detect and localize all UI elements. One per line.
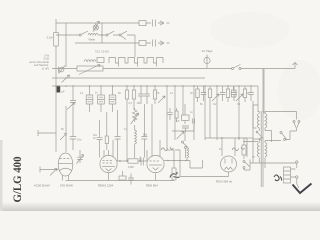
resistor R6 (153, 86, 156, 104)
resistor R16 (97, 58, 104, 63)
capacitor C8 (231, 86, 237, 101)
wire mains antenna line (162, 68, 295, 70)
node n3 (221, 137, 223, 139)
wire heater leads (250, 158, 290, 169)
transformer TR primary upper (257, 114, 259, 128)
trimmer arrow T6 (131, 113, 139, 124)
terminal arrow antenna (160, 21, 170, 25)
trimmer cap CT1 (59, 66, 66, 74)
switch S4 mains (280, 132, 287, 141)
wire vertical v183 (182, 86, 184, 115)
node junction lamp (101, 34, 103, 36)
capacitor C15 (128, 174, 134, 185)
wire bus to transformer (257, 86, 259, 112)
svg-text:REN 904: REN 904 (146, 184, 158, 188)
capacitor C14 (141, 158, 143, 166)
wire V4 bottom run (175, 150, 229, 177)
transformer TR secondary upper (265, 114, 267, 128)
wire main bus (52, 85, 258, 87)
svg-text:Welle: Welle (89, 38, 96, 42)
wire vertical v175 (174, 86, 176, 140)
tube V2 RENS1204 (100, 140, 117, 181)
svg-text:G/LG 400: G/LG 400 (10, 157, 24, 203)
svg-text:7/12 7,5-8,5: 7/12 7,5-8,5 (95, 50, 109, 54)
resistor R7 (196, 86, 199, 102)
trimmer cap CT2 (60, 134, 67, 141)
trimmer arrow T1 (62, 75, 70, 83)
trimmer arrow T5 (236, 94, 243, 101)
wire v167 bottom (167, 149, 174, 151)
wire v147 drop (146, 150, 148, 161)
tube V4 RGN1064 (221, 156, 237, 177)
wire bottom run V2 (66, 180, 175, 182)
wire V3 anode run (164, 160, 203, 168)
wire v125 drop (126, 110, 128, 161)
svg-text:678 3N/W: 678 3N/W (60, 184, 73, 188)
capacitor C4 (138, 86, 144, 104)
IF transformer Fi3 (109, 86, 116, 112)
svg-text:RGN 354 ds: RGN 354 ds (216, 180, 232, 184)
wire left feed vertical (56, 19, 66, 152)
svg-text:10n: 10n (77, 138, 82, 142)
wire secondary leads (265, 112, 297, 143)
svg-text:4V: 4V (252, 156, 255, 159)
wire vertical v167 (166, 86, 168, 150)
wire cathode run (40, 167, 58, 173)
capacitor C7 (220, 86, 225, 101)
capacitor C1 (153, 20, 156, 27)
jack dark (57, 86, 61, 93)
node n4 (238, 137, 240, 139)
resistor R19 (175, 108, 178, 122)
trimmer arrow T8 (177, 132, 185, 140)
capacitor C2 (153, 40, 156, 47)
svg-text:RENS 1204: RENS 1204 (98, 184, 114, 188)
switch S2 (232, 65, 242, 70)
IF transformer Fi2 (98, 86, 105, 112)
tube V1 RENS1254 (58, 153, 73, 181)
svg-text:4A Träge: 4A Träge (202, 49, 213, 53)
wire hv run (205, 101, 258, 157)
annotation ink squiggle (170, 172, 180, 178)
detector box DB (182, 104, 190, 124)
node n1 (119, 160, 121, 162)
resistor R5 (132, 86, 135, 110)
wire comb taps (119, 63, 157, 67)
switch S3 (182, 141, 188, 149)
annotation script a2 (232, 147, 245, 151)
switch S5 tap (256, 131, 263, 140)
resistor R17 (105, 112, 108, 150)
trimmer cap CT3 (77, 150, 84, 164)
potentiometer P1 (77, 65, 103, 75)
resistor R1 (139, 21, 146, 26)
resistor R4 (125, 86, 128, 110)
switch S1a (79, 31, 88, 36)
annotation check mark (293, 184, 312, 194)
resistor R10 (243, 86, 246, 102)
terminal mains antenna (293, 63, 298, 69)
inductor L5 (187, 148, 189, 161)
capacitor C13 (141, 104, 147, 158)
trimmer arrow T7 (50, 169, 57, 176)
capacitor C6 (201, 86, 206, 101)
capacitor C3 (70, 86, 76, 110)
transformer TR core (261, 111, 263, 187)
tube V3 REN904 (147, 104, 164, 181)
switch S1c (119, 31, 127, 39)
annotation ink blob (274, 175, 282, 181)
transformer TR secondary lower (265, 143, 267, 157)
lamp La (93, 21, 100, 32)
svg-text:0,5M: 0,5M (128, 166, 134, 169)
wire band switch row (56, 34, 135, 36)
resistor R15 (232, 86, 237, 97)
transformer TR primary lower (257, 143, 259, 157)
trimmer arrow T2 (67, 103, 75, 110)
resistor R3 (54, 33, 59, 47)
terminal arrow earth (160, 41, 170, 45)
wire AVC line (52, 68, 162, 70)
capacitor C5 (144, 86, 150, 104)
note text block (29, 54, 49, 71)
capacitor C11 (93, 120, 103, 158)
resistor R12 (128, 159, 138, 169)
inductor L2 (84, 60, 96, 62)
wire earth line (75, 42, 164, 44)
trimmer arrow T4 (212, 94, 219, 101)
switch S6 heater (243, 161, 250, 171)
wire grid line (52, 77, 205, 79)
wire lamp drop (96, 23, 102, 43)
svg-text:AC50 DA/W: AC50 DA/W (34, 184, 50, 188)
wire mains to transformer (262, 69, 264, 113)
wire vertical v205 (204, 86, 206, 140)
resistor R13 (119, 171, 126, 180)
wire vertical v66 (65, 106, 67, 152)
capacitor C10 (70, 110, 82, 150)
IF transformer Fi1 (86, 86, 93, 112)
switch S1b (106, 31, 114, 36)
svg-text:50p: 50p (143, 134, 148, 137)
wire grid tap left (38, 130, 56, 136)
wire to check (297, 178, 299, 188)
wire antenna line top (56, 22, 164, 24)
wire vertical v239 (238, 86, 240, 140)
node bus junctions (55, 85, 252, 87)
resistor R18 (242, 138, 253, 159)
resistor R2 (139, 41, 146, 46)
svg-text:µF: µF (62, 90, 65, 94)
node n2 (139, 160, 141, 162)
wire vertical v194 (193, 86, 195, 140)
capacitor C12 (115, 110, 121, 161)
wire det links (172, 123, 194, 158)
svg-text:(1 nF): (1 nF) (42, 66, 49, 70)
resistor R11 zigzag (133, 108, 137, 122)
value labels sprinkle (61, 92, 255, 160)
resistor R9 (226, 86, 229, 102)
inductor comb L3 (109, 58, 163, 64)
capacitor C17 (167, 108, 172, 120)
svg-text:0,1M: 0,1M (47, 36, 53, 40)
voltage selector VS (284, 161, 298, 183)
resistor R14 (172, 150, 176, 180)
svg-text:1M: 1M (137, 102, 140, 105)
inductor L4 (135, 125, 137, 158)
wire vertical v217 (216, 86, 218, 140)
fuse F1 (204, 55, 210, 69)
resistor R8 (208, 86, 211, 138)
capacitor C16 (182, 119, 195, 133)
annotation script a1 (161, 147, 174, 151)
wire primary leads (253, 69, 264, 164)
wire coupling run (117, 157, 147, 162)
trimmer arrow T3 (158, 96, 165, 103)
capacitor C9 (248, 86, 254, 101)
wire switch drop (134, 35, 136, 57)
inductor L1 (88, 33, 98, 35)
mains plug P (286, 121, 301, 140)
